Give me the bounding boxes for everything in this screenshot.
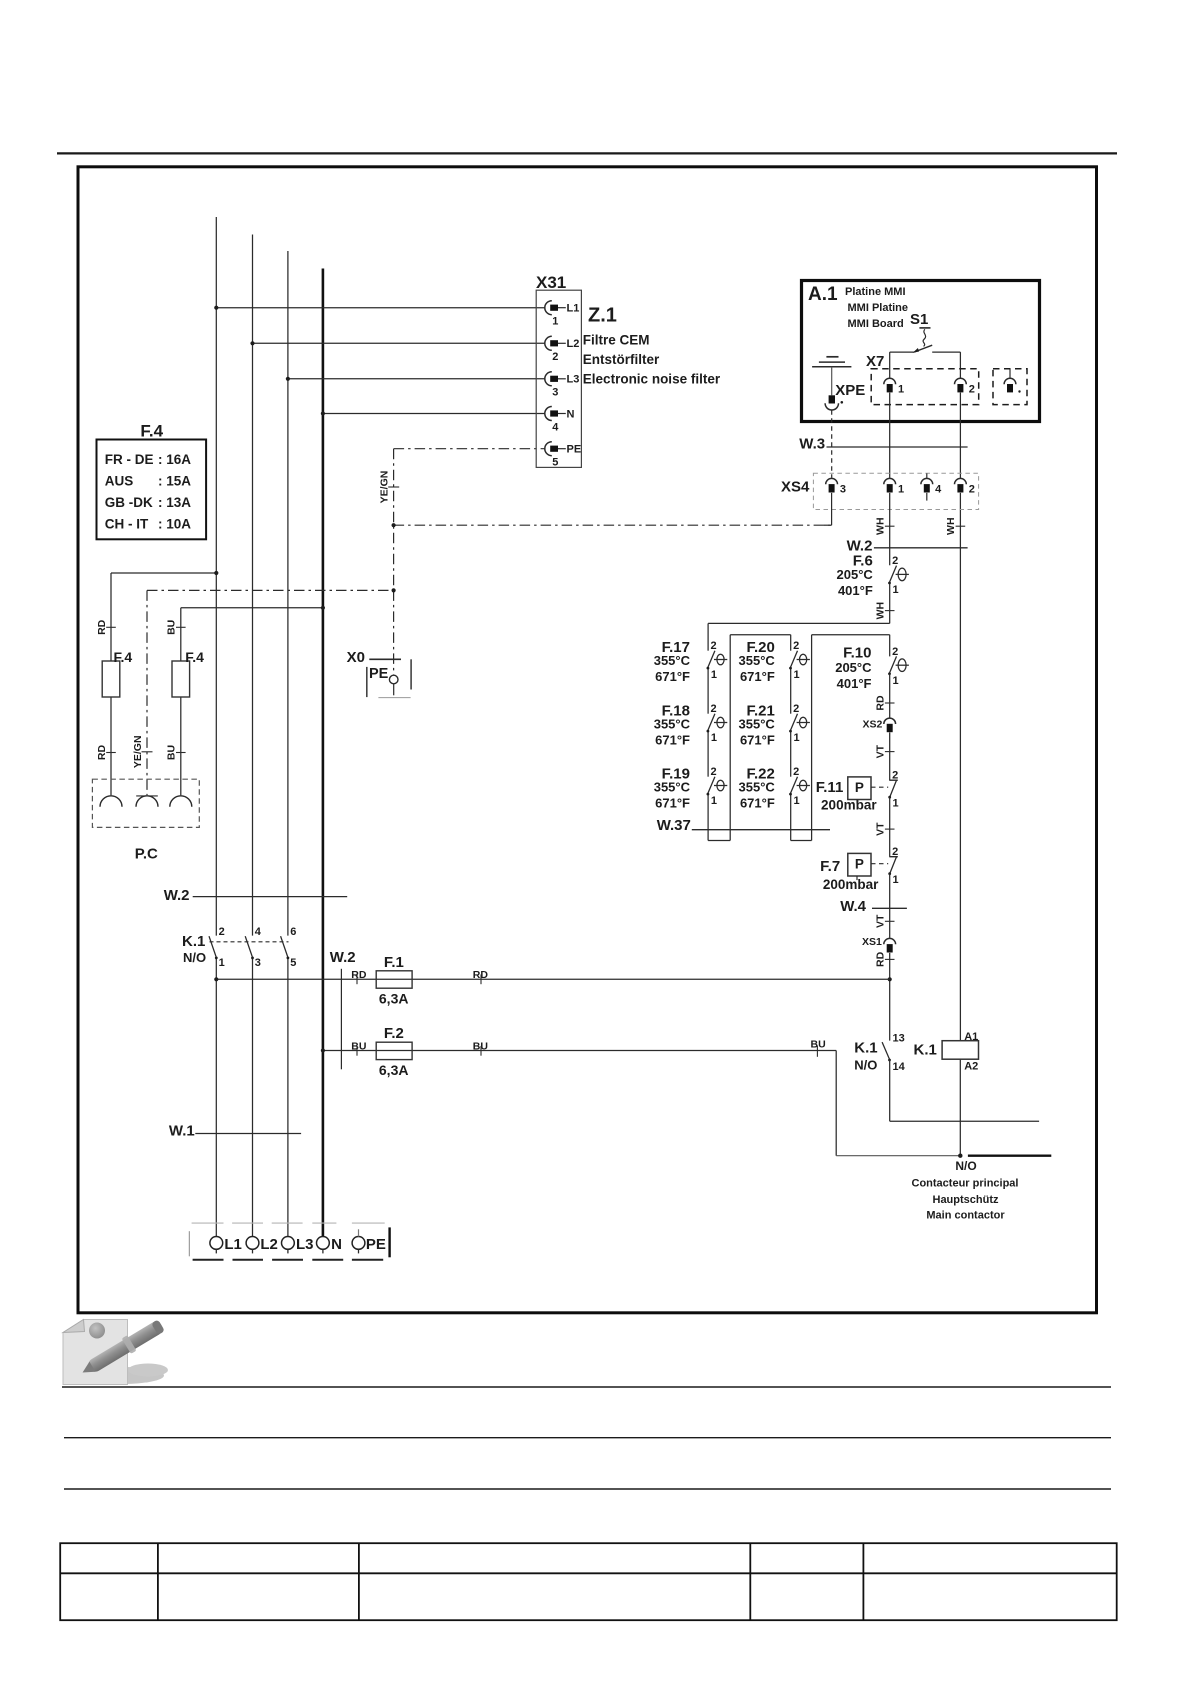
svg-text:1: 1: [893, 874, 899, 886]
terminal L2: [246, 1237, 259, 1250]
svg-text:1: 1: [898, 484, 904, 496]
svg-text:XS4: XS4: [781, 479, 810, 496]
svg-text:RD: RD: [96, 745, 108, 761]
svg-text:XS2: XS2: [863, 719, 883, 731]
svg-text:2: 2: [711, 640, 717, 652]
wire U-bottom 1: [708, 840, 730, 842]
svg-text:P: P: [855, 780, 864, 795]
svg-text:L1: L1: [567, 303, 580, 315]
svg-text:: 13A: : 13A: [158, 495, 191, 510]
svg-text:2: 2: [969, 383, 975, 395]
wire N to X31 pin4: [323, 413, 546, 415]
svg-text:355°C: 355°C: [739, 653, 776, 668]
svg-text:355°C: 355°C: [739, 716, 776, 731]
pin X31-2 L2: [545, 336, 552, 350]
wire X7-2 down (to K.1 coil): [959, 393, 961, 478]
svg-text:K.1: K.1: [182, 933, 205, 950]
svg-text:N/O: N/O: [854, 1058, 877, 1073]
contact K.1 pole 2: [245, 936, 252, 957]
node N/O junction: [958, 1154, 962, 1158]
svg-text:2: 2: [552, 351, 558, 363]
svg-text:4: 4: [552, 421, 559, 433]
svg-text:Z.1: Z.1: [588, 305, 617, 327]
svg-text:N/O: N/O: [183, 950, 206, 965]
svg-text:RD: RD: [875, 695, 887, 711]
pin XS4-2: [955, 478, 967, 484]
fuse F.4 left (RD): [102, 661, 120, 697]
contact K.1 pole 1: [209, 936, 216, 957]
terminal PE stub: [358, 1229, 360, 1236]
svg-text:2: 2: [892, 769, 898, 781]
svg-text:XPE: XPE: [835, 382, 865, 399]
svg-text:2: 2: [793, 640, 799, 652]
svg-text:1: 1: [711, 669, 717, 681]
svg-text:X7: X7: [866, 353, 884, 370]
svg-text:BU: BU: [473, 1040, 488, 1052]
svg-text:N/O: N/O: [955, 1159, 976, 1173]
svg-text:1: 1: [893, 675, 899, 687]
wire XS4-1 down: [889, 493, 891, 565]
wire RD branch: [111, 572, 216, 574]
svg-text:VT: VT: [875, 822, 887, 836]
svg-text:BU: BU: [351, 1040, 366, 1052]
svg-text:Platine MMI: Platine MMI: [845, 286, 906, 298]
pin X31-3 L3: [545, 372, 552, 386]
svg-text:14: 14: [893, 1061, 906, 1073]
svg-text:W.2: W.2: [164, 887, 190, 904]
pin XS4-1: [884, 478, 896, 484]
svg-text:A.1: A.1: [808, 284, 838, 305]
svg-text:L3: L3: [296, 1236, 314, 1253]
svg-text:L2: L2: [260, 1236, 278, 1253]
wire XS4-3 to PE net: [831, 493, 833, 525]
svg-text:2: 2: [793, 766, 799, 778]
wire K.1-14 down: [889, 1060, 891, 1121]
svg-text:: 16A: : 16A: [158, 452, 191, 467]
svg-text:VT: VT: [875, 914, 887, 928]
svg-text:PE: PE: [567, 444, 582, 456]
contact linkage dashed: [210, 941, 289, 943]
wire column return 1: [729, 635, 731, 841]
wire N rail: [322, 269, 325, 1237]
svg-text:W.2: W.2: [330, 949, 356, 966]
svg-text:F.1: F.1: [384, 954, 404, 971]
wire column F.20-22: [790, 635, 792, 651]
svg-text:L2: L2: [567, 338, 580, 350]
wire L1 rail: [215, 217, 217, 936]
terminal L1: [210, 1237, 223, 1250]
wire F.7 down: [889, 874, 891, 938]
svg-text:2: 2: [892, 646, 898, 658]
svg-text:GB -DK: GB -DK: [105, 495, 153, 510]
svg-text:2: 2: [793, 703, 799, 715]
pin XS4-4: [921, 478, 933, 484]
svg-text:Filtre CEM: Filtre CEM: [583, 333, 650, 348]
svg-text:K.1: K.1: [854, 1039, 877, 1056]
svg-text:MMI Board: MMI Board: [848, 318, 904, 330]
wire XPE dashed drop: [831, 410, 833, 478]
svg-text:N: N: [567, 408, 575, 420]
wire F.10 to XS2: [889, 674, 891, 718]
svg-text:L1: L1: [224, 1236, 242, 1253]
svg-text:671°F: 671°F: [740, 733, 775, 748]
wire X7-1 down: [889, 393, 891, 478]
pin X7 spare: [1009, 369, 1011, 378]
svg-text:1: 1: [711, 795, 717, 807]
pin X31-1 L1: [545, 301, 552, 315]
svg-text:Electronic noise filter: Electronic noise filter: [583, 372, 721, 387]
svg-text:A2: A2: [964, 1061, 978, 1073]
wire U-bottom 2: [791, 840, 812, 842]
wire L2 to X31 pin2: [253, 342, 546, 344]
svg-text:2: 2: [892, 555, 898, 567]
svg-text:5: 5: [290, 957, 296, 969]
svg-text:BU: BU: [811, 1039, 826, 1051]
wire top link 2: [812, 634, 890, 636]
svg-text:200mbar: 200mbar: [823, 877, 879, 892]
svg-text:2: 2: [892, 846, 898, 858]
terminal strip: [192, 1222, 224, 1224]
svg-text:2: 2: [711, 703, 717, 715]
wire F.10 column top: [889, 635, 891, 657]
terminal N: [317, 1237, 330, 1250]
svg-text:5: 5: [552, 457, 558, 469]
svg-text:1: 1: [794, 732, 800, 744]
svg-text:XS1: XS1: [862, 936, 882, 948]
board A.1 box: [802, 281, 1040, 422]
svg-text:X0: X0: [347, 649, 365, 666]
svg-text:205°C: 205°C: [837, 567, 874, 582]
svg-text:671°F: 671°F: [655, 669, 690, 684]
svg-text:F.4: F.4: [185, 649, 204, 665]
wire XS1 down: [889, 953, 891, 1041]
wire column return 2: [811, 635, 813, 841]
pin XS4-3: [826, 478, 838, 484]
svg-text:BU: BU: [166, 620, 178, 635]
wire XS2 to F.11: [889, 732, 891, 780]
svg-text:3: 3: [552, 387, 558, 399]
svg-text:Entstörfilter: Entstörfilter: [583, 352, 660, 367]
svg-text:1: 1: [794, 669, 800, 681]
svg-text:MMI Platine: MMI Platine: [848, 302, 909, 314]
svg-text:2: 2: [711, 766, 717, 778]
svg-text:355°C: 355°C: [654, 716, 691, 731]
svg-text:355°C: 355°C: [654, 653, 691, 668]
wire RD main run: [216, 978, 889, 980]
svg-text:L3: L3: [567, 374, 580, 386]
wire BU main run: [323, 1050, 836, 1052]
svg-text:1: 1: [893, 584, 899, 596]
wire F.6 down: [889, 584, 891, 624]
svg-text:2: 2: [219, 926, 225, 938]
wire BU branch: [181, 607, 323, 609]
svg-text:F.11: F.11: [816, 779, 844, 796]
svg-text:BU: BU: [166, 745, 178, 760]
svg-text:AUS: AUS: [105, 474, 134, 489]
svg-text:3: 3: [255, 957, 261, 969]
svg-text:PE: PE: [369, 666, 389, 682]
svg-text:6,3A: 6,3A: [379, 990, 409, 1006]
svg-text:1: 1: [898, 383, 904, 395]
svg-text:PE: PE: [366, 1236, 386, 1253]
svg-text:401°F: 401°F: [838, 583, 873, 598]
node RD junction: [888, 977, 892, 981]
svg-text:401°F: 401°F: [837, 676, 872, 691]
svg-text:F.4: F.4: [140, 422, 163, 441]
svg-text:355°C: 355°C: [654, 779, 691, 794]
svg-text:W.37: W.37: [657, 817, 691, 834]
wire S1 to X7: [890, 351, 915, 353]
svg-text:F.7: F.7: [820, 858, 840, 875]
svg-text:1: 1: [893, 798, 899, 810]
svg-text:VT: VT: [875, 744, 887, 758]
pin X7-1: [884, 378, 896, 384]
svg-text:: 10A: : 10A: [158, 517, 191, 532]
svg-text:WH: WH: [875, 602, 887, 620]
svg-text:RD: RD: [875, 951, 887, 967]
svg-text:1: 1: [711, 732, 717, 744]
node PE junction 2: [392, 588, 396, 592]
svg-text:2: 2: [969, 484, 975, 496]
svg-text:P.C: P.C: [135, 846, 158, 863]
svg-text:13: 13: [893, 1033, 905, 1045]
terminal L3: [282, 1237, 295, 1250]
svg-text:355°C: 355°C: [739, 779, 776, 794]
svg-text:Contacteur principal: Contacteur principal: [912, 1177, 1019, 1189]
wire thermal chain top: [708, 622, 890, 624]
svg-text:4: 4: [255, 926, 262, 938]
wire L1 to X31 pin1: [216, 307, 545, 309]
fuse F.4 right (BU): [172, 661, 190, 697]
wire F.11 to F.7: [889, 797, 891, 857]
wire top link 1: [730, 634, 791, 636]
svg-text:Hauptschütz: Hauptschütz: [933, 1194, 1000, 1206]
svg-text:P: P: [855, 857, 864, 872]
contact K.1 pole 3: [281, 936, 288, 957]
svg-text:6,3A: 6,3A: [379, 1062, 409, 1078]
pin X7-2: [955, 378, 967, 384]
wire column F.17-19: [707, 623, 709, 650]
svg-text:6: 6: [290, 926, 296, 938]
ground symbol: [826, 356, 838, 358]
svg-text:RD: RD: [96, 619, 108, 635]
svg-text:: 15A: : 15A: [158, 474, 191, 489]
node PE junction 1: [392, 523, 396, 527]
wire L3 to X31 pin3: [288, 378, 546, 380]
svg-text:K.1: K.1: [914, 1041, 937, 1058]
svg-text:A1: A1: [964, 1031, 978, 1043]
svg-text:3: 3: [840, 484, 846, 496]
svg-text:WH: WH: [945, 517, 957, 535]
svg-text:1: 1: [794, 795, 800, 807]
connector P.C: [92, 779, 199, 827]
svg-text:RD: RD: [351, 969, 367, 981]
svg-text:F.4: F.4: [114, 649, 133, 665]
svg-text:671°F: 671°F: [740, 669, 775, 684]
svg-text:S1: S1: [910, 311, 928, 328]
pin X31-4 N: [545, 407, 552, 421]
svg-text:CH - IT: CH - IT: [105, 517, 149, 532]
svg-text:WH: WH: [875, 517, 887, 535]
svg-text:1: 1: [219, 957, 225, 969]
svg-text:W.3: W.3: [799, 436, 825, 453]
wire PE dash-dot net: [394, 448, 546, 450]
svg-text:X31: X31: [536, 273, 566, 292]
terminal PE: [352, 1237, 365, 1250]
svg-text:671°F: 671°F: [655, 733, 690, 748]
svg-text:4: 4: [935, 484, 942, 496]
pin X31-5 PE: [545, 442, 552, 456]
svg-text:F.2: F.2: [384, 1025, 404, 1042]
svg-text:671°F: 671°F: [655, 796, 690, 811]
svg-text:Main contactor: Main contactor: [926, 1209, 1005, 1221]
svg-text:671°F: 671°F: [740, 796, 775, 811]
wire L2 rail: [252, 235, 254, 936]
svg-text:FR - DE: FR - DE: [105, 452, 154, 467]
svg-text:W.1: W.1: [169, 1122, 195, 1139]
svg-text:205°C: 205°C: [835, 660, 872, 675]
svg-text:W.4: W.4: [840, 898, 866, 915]
svg-text:N: N: [331, 1236, 342, 1253]
wire L3 rail: [287, 251, 289, 936]
svg-text:1: 1: [552, 316, 558, 328]
